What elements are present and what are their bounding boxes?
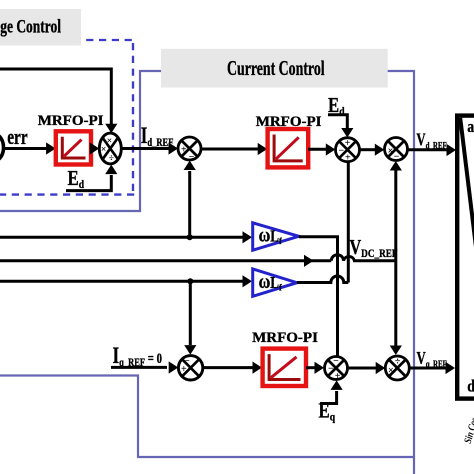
svg-text:MRFO-PI: MRFO-PI — [252, 330, 318, 346]
svg-text:÷: ÷ — [109, 154, 114, 164]
svg-text:a: a — [467, 118, 474, 136]
svg-text:Current Control: Current Control — [227, 56, 325, 80]
svg-text:×: × — [101, 145, 106, 155]
svg-text:−: − — [333, 356, 339, 367]
svg-text:MRFO-PI: MRFO-PI — [38, 113, 104, 129]
svg-text:×: × — [388, 146, 394, 157]
svg-text:err: err — [7, 126, 28, 150]
svg-text:Voltage Control: Voltage Control — [0, 15, 61, 37]
svg-text:+: + — [345, 138, 351, 149]
svg-text:+: + — [181, 145, 187, 156]
svg-text:×: × — [388, 366, 394, 377]
svg-text:÷: ÷ — [395, 356, 401, 367]
svg-text:MRFO-PI: MRFO-PI — [256, 114, 322, 130]
svg-text:×: × — [107, 137, 112, 147]
svg-text:−: − — [328, 364, 334, 375]
svg-text:+: + — [335, 371, 341, 382]
svg-text:d: d — [467, 377, 474, 395]
svg-text:−: − — [394, 152, 400, 163]
svg-text:+: + — [181, 364, 187, 375]
svg-text:−: − — [338, 145, 344, 156]
